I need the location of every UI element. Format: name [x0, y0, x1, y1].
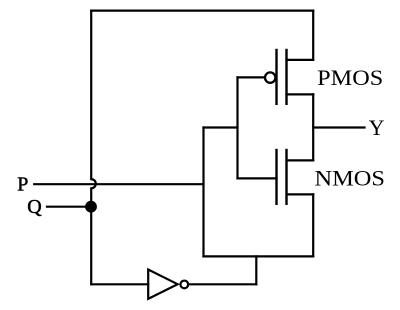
node junction dot on Q rail: [85, 201, 97, 213]
wire input P: [34, 183, 203, 185]
wire output Y: [313, 126, 364, 128]
wire input Q: [47, 206, 91, 208]
wire PMOS source stub: [287, 93, 314, 95]
wire left rail lower segment: [90, 188, 92, 284]
wire right vertical between PMOS and NMOS: [312, 94, 314, 160]
svg-text:Q: Q: [27, 196, 42, 218]
svg-text:PMOS: PMOS: [317, 66, 383, 90]
svg-text:NMOS: NMOS: [315, 167, 386, 191]
wire NMOS gate lead: [238, 177, 277, 179]
wire lower right vertical: [312, 194, 314, 256]
wire PMOS drain vertical: [312, 11, 314, 60]
wire connector gate column to mid vertical: [204, 126, 238, 128]
wire crossover hop over P line: [91, 179, 96, 188]
inverter U1: [148, 270, 188, 299]
wire PMOS gate lead: [238, 76, 265, 78]
wire inverter input: [91, 283, 148, 285]
wire bottom rail: [204, 255, 314, 257]
wire NMOS source stub: [287, 193, 314, 195]
wire inverter output horizontal: [189, 283, 256, 285]
svg-text:P: P: [17, 173, 28, 195]
wire mid vertical: [202, 128, 204, 257]
wire gate vertical (PMOS gate to NMOS gate): [236, 77, 238, 178]
wire NMOS drain stub: [287, 159, 314, 161]
wire PMOS drain stub: [287, 59, 314, 61]
wire inverter output jog vertical: [255, 256, 257, 284]
wire left rail upper segment: [90, 11, 92, 180]
svg-text:Y: Y: [369, 116, 385, 140]
wire top rail (Q node to PMOS upper terminal): [91, 10, 313, 12]
transistor NMOS: [277, 150, 287, 204]
transistor PMOS: [265, 50, 287, 104]
